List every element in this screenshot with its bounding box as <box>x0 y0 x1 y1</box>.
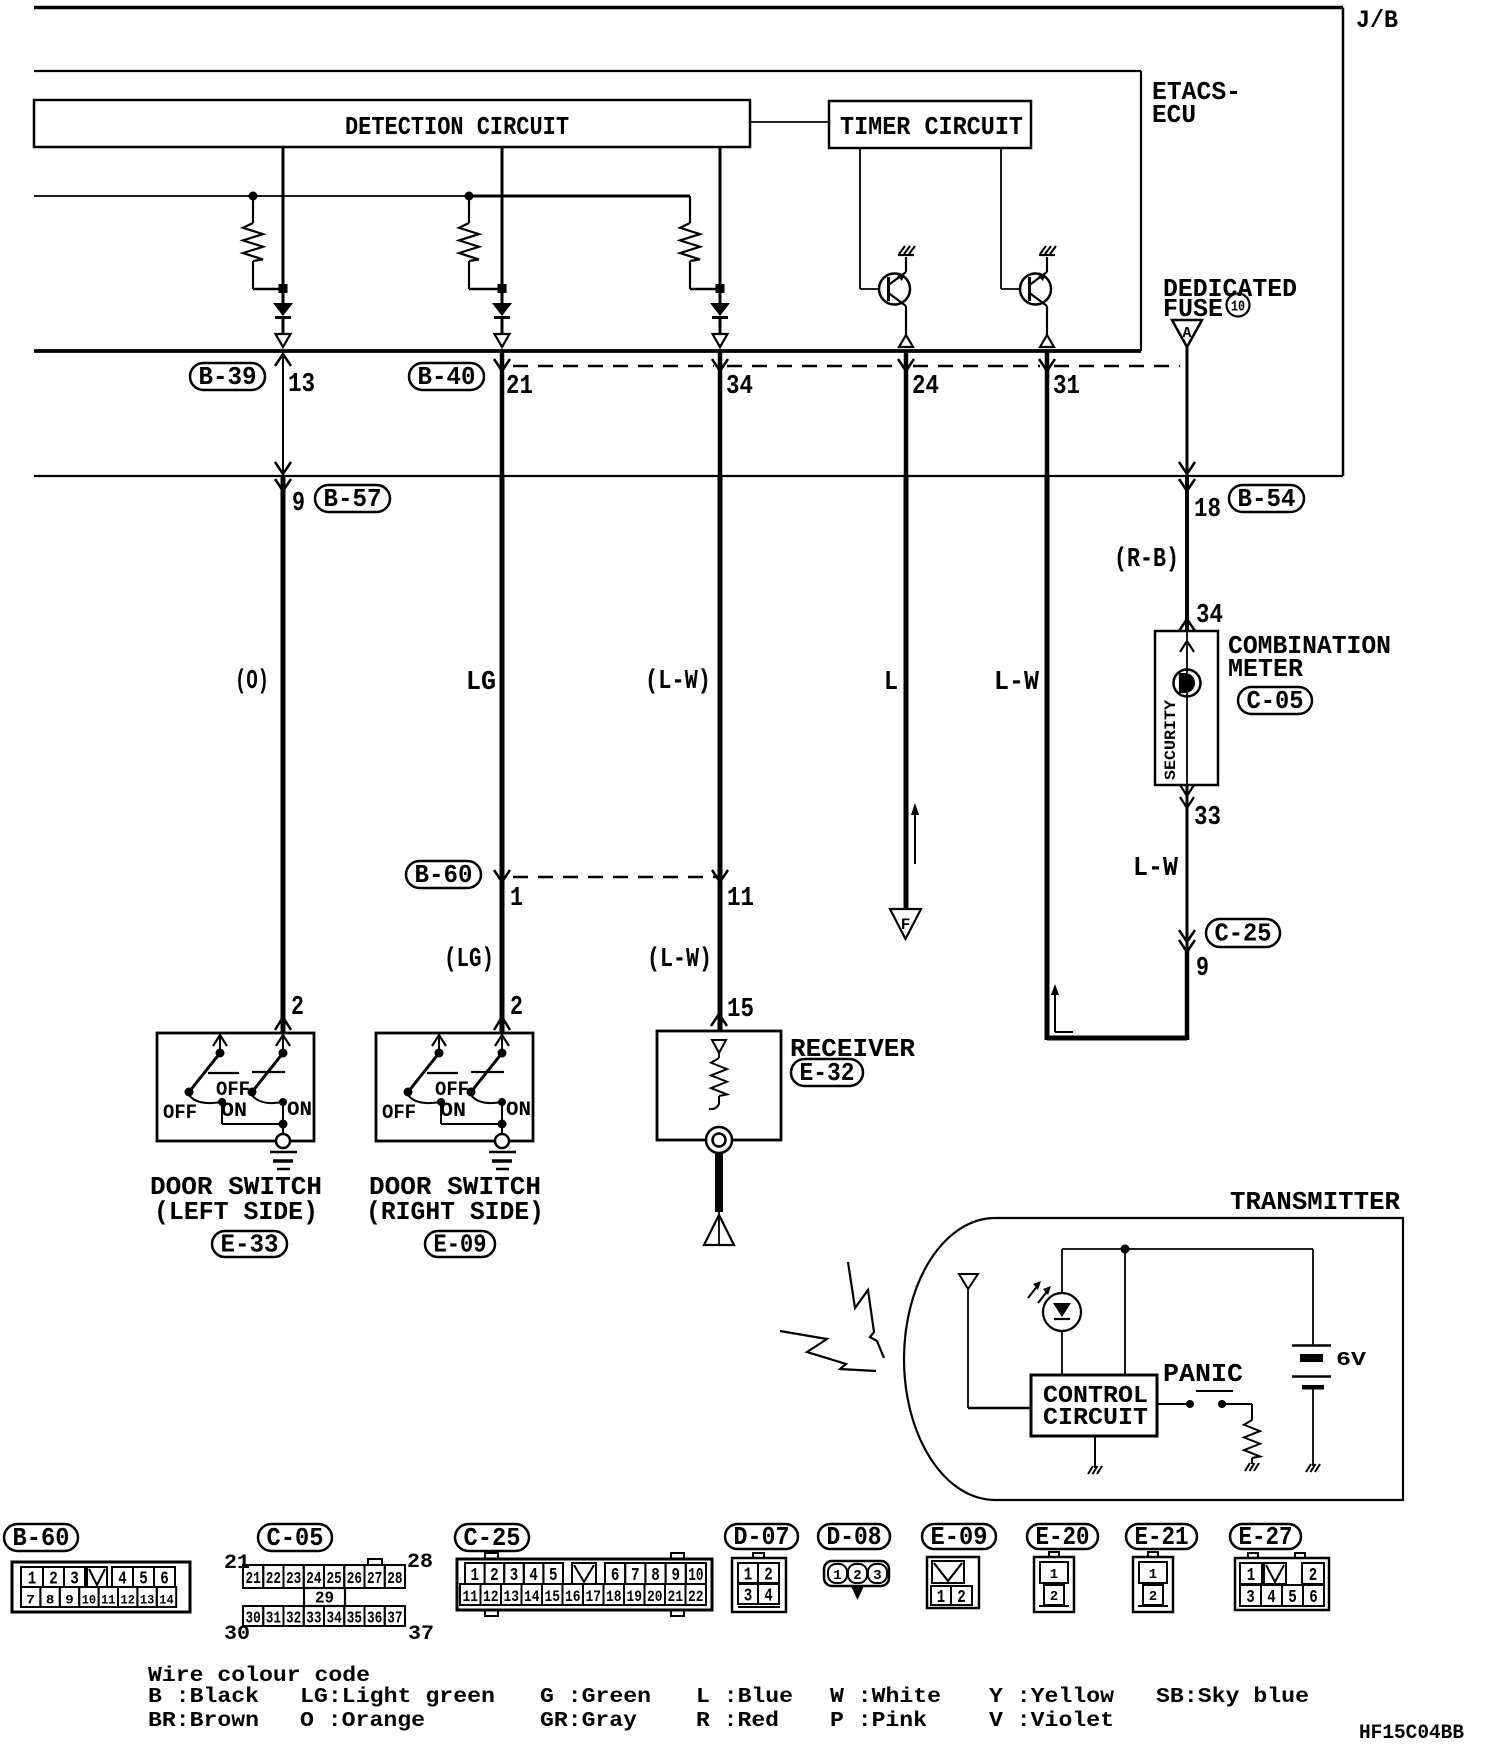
svg-text:C-25: C-25 <box>464 1523 521 1553</box>
svg-text:Wire colour code: Wire colour code <box>148 1665 370 1688</box>
svg-text:Y :Yellow: Y :Yellow <box>989 1686 1114 1709</box>
svg-text:14: 14 <box>159 1593 174 1608</box>
svg-text:ON: ON <box>440 1100 466 1123</box>
svg-text:(LEFT SIDE): (LEFT SIDE) <box>154 1197 318 1227</box>
svg-text:1: 1 <box>744 1566 753 1586</box>
svg-text:2: 2 <box>957 1588 966 1608</box>
svg-text:ECU: ECU <box>1152 100 1196 130</box>
svg-text:BR:Brown: BR:Brown <box>148 1710 259 1733</box>
svg-text:METER: METER <box>1228 654 1303 684</box>
svg-text:2: 2 <box>1309 1566 1318 1586</box>
svg-text:9: 9 <box>65 1593 74 1608</box>
svg-text:27: 27 <box>367 1570 382 1589</box>
svg-text:31: 31 <box>1053 372 1080 402</box>
svg-text:B-60: B-60 <box>415 860 473 890</box>
svg-text:22: 22 <box>266 1570 281 1589</box>
svg-text:20: 20 <box>647 1588 663 1606</box>
svg-text:GR:Gray: GR:Gray <box>540 1710 637 1733</box>
svg-text:DETECTION CIRCUIT: DETECTION CIRCUIT <box>345 112 569 142</box>
svg-text:E-21: E-21 <box>1135 1522 1189 1552</box>
svg-text:R :Red: R :Red <box>696 1710 779 1733</box>
svg-text:LG:Light green: LG:Light green <box>300 1686 495 1709</box>
svg-text:12: 12 <box>483 1588 499 1606</box>
svg-text:(O): (O) <box>235 667 269 697</box>
svg-text:24: 24 <box>306 1570 321 1589</box>
svg-text:E-09: E-09 <box>931 1522 988 1552</box>
svg-text:SECURITY: SECURITY <box>1162 700 1180 780</box>
svg-text:37: 37 <box>387 1610 402 1629</box>
svg-text:1: 1 <box>937 1588 946 1608</box>
svg-text:L :Blue: L :Blue <box>696 1686 793 1709</box>
svg-text:11: 11 <box>101 1593 116 1608</box>
svg-text:L-W: L-W <box>994 668 1040 698</box>
svg-text:4: 4 <box>1267 1588 1276 1608</box>
svg-text:B-39: B-39 <box>199 362 257 392</box>
svg-text:(L-W): (L-W) <box>647 945 712 975</box>
svg-text:17: 17 <box>586 1588 602 1606</box>
svg-text:33: 33 <box>306 1610 321 1629</box>
svg-text:7: 7 <box>26 1593 35 1608</box>
svg-text:5: 5 <box>1288 1588 1297 1608</box>
svg-text:TIMER CIRCUIT: TIMER CIRCUIT <box>840 112 1023 142</box>
svg-text:2: 2 <box>1050 1589 1058 1605</box>
svg-text:2: 2 <box>853 1568 861 1584</box>
svg-text:TRANSMITTER: TRANSMITTER <box>1230 1187 1400 1217</box>
svg-text:OFF: OFF <box>216 1079 250 1102</box>
svg-text:9: 9 <box>292 489 305 519</box>
svg-text:28: 28 <box>387 1570 402 1589</box>
svg-text:21: 21 <box>246 1570 261 1589</box>
svg-text:23: 23 <box>286 1570 301 1589</box>
svg-text:B-40: B-40 <box>418 362 476 392</box>
svg-text:4: 4 <box>764 1587 773 1607</box>
svg-text:C-05: C-05 <box>1247 686 1304 716</box>
svg-text:C-25: C-25 <box>1215 919 1272 949</box>
svg-text:LG: LG <box>466 668 496 698</box>
svg-text:3: 3 <box>1246 1588 1255 1608</box>
svg-text:13: 13 <box>504 1588 520 1606</box>
svg-text:OFF: OFF <box>382 1102 416 1125</box>
svg-text:B :Black: B :Black <box>148 1686 259 1709</box>
svg-text:O :Orange: O :Orange <box>300 1710 425 1733</box>
svg-text:E-20: E-20 <box>1036 1522 1090 1552</box>
svg-text:9: 9 <box>1196 954 1209 984</box>
svg-text:22: 22 <box>688 1588 704 1606</box>
svg-text:2: 2 <box>1149 1589 1157 1605</box>
svg-text:(L-W): (L-W) <box>645 667 711 697</box>
svg-text:E-27: E-27 <box>1239 1522 1293 1552</box>
svg-text:1: 1 <box>833 1568 841 1584</box>
svg-text:13: 13 <box>288 370 315 400</box>
svg-text:34: 34 <box>327 1610 342 1629</box>
svg-text:C-05: C-05 <box>267 1523 324 1553</box>
svg-text:32: 32 <box>286 1610 301 1629</box>
svg-text:8: 8 <box>46 1593 55 1608</box>
svg-text:33: 33 <box>1194 803 1221 833</box>
svg-text:37: 37 <box>408 1623 434 1646</box>
svg-text:D-08: D-08 <box>827 1522 882 1552</box>
svg-text:OFF: OFF <box>163 1102 197 1125</box>
svg-text:15: 15 <box>545 1588 561 1606</box>
svg-text:36: 36 <box>367 1610 382 1629</box>
svg-text:G :Green: G :Green <box>540 1686 651 1709</box>
svg-text:21: 21 <box>506 372 533 402</box>
svg-text:(R-B): (R-B) <box>1114 545 1179 575</box>
svg-text:18: 18 <box>606 1588 622 1606</box>
svg-text:(RIGHT SIDE): (RIGHT SIDE) <box>366 1197 544 1227</box>
svg-text:1: 1 <box>1149 1567 1157 1583</box>
svg-text:16: 16 <box>565 1588 581 1606</box>
svg-text:SB:Sky blue: SB:Sky blue <box>1156 1686 1309 1709</box>
svg-text:D-07: D-07 <box>734 1522 790 1552</box>
svg-text:B-57: B-57 <box>324 484 382 514</box>
svg-text:J/B: J/B <box>1356 6 1398 35</box>
svg-text:12: 12 <box>121 1593 136 1608</box>
svg-text:CIRCUIT: CIRCUIT <box>1043 1405 1148 1432</box>
svg-text:ON: ON <box>506 1099 531 1122</box>
svg-text:6V: 6V <box>1336 1349 1367 1371</box>
svg-text:ON: ON <box>287 1099 312 1122</box>
svg-text:(LG): (LG) <box>444 945 494 975</box>
svg-text:34: 34 <box>1196 601 1223 631</box>
svg-text:11: 11 <box>727 884 754 914</box>
svg-text:ON: ON <box>221 1100 247 1123</box>
svg-text:2: 2 <box>764 1566 773 1586</box>
svg-text:W :White: W :White <box>830 1686 941 1709</box>
svg-text:1: 1 <box>1247 1566 1256 1586</box>
svg-text:19: 19 <box>627 1588 643 1606</box>
svg-text:HF15C04BB: HF15C04BB <box>1359 1722 1464 1745</box>
svg-text:13: 13 <box>140 1593 155 1608</box>
svg-text:E-33: E-33 <box>221 1230 279 1260</box>
svg-text:P :Pink: P :Pink <box>830 1710 927 1733</box>
svg-text:6: 6 <box>1309 1588 1318 1608</box>
svg-text:21: 21 <box>668 1588 684 1606</box>
svg-text:31: 31 <box>266 1610 281 1629</box>
svg-text:2: 2 <box>291 993 304 1023</box>
svg-text:26: 26 <box>347 1570 362 1589</box>
svg-text:25: 25 <box>327 1570 342 1589</box>
svg-text:10: 10 <box>82 1593 97 1608</box>
svg-text:E-09: E-09 <box>434 1230 487 1260</box>
svg-text:PANIC: PANIC <box>1163 1359 1243 1389</box>
svg-text:14: 14 <box>524 1588 540 1606</box>
svg-text:34: 34 <box>726 372 753 402</box>
svg-text:OFF: OFF <box>435 1079 469 1102</box>
svg-text:E-32: E-32 <box>800 1058 855 1088</box>
svg-text:30: 30 <box>246 1610 261 1629</box>
svg-text:B-54: B-54 <box>1238 484 1296 514</box>
svg-text:B-60: B-60 <box>13 1523 70 1553</box>
svg-text:28: 28 <box>407 1551 433 1574</box>
svg-text:11: 11 <box>463 1588 479 1606</box>
svg-text:1: 1 <box>1050 1567 1058 1583</box>
svg-text:10: 10 <box>1231 299 1245 316</box>
svg-text:15: 15 <box>727 995 754 1025</box>
svg-text:V :Violet: V :Violet <box>989 1710 1114 1733</box>
svg-text:F: F <box>901 916 911 934</box>
svg-text:1: 1 <box>510 884 523 914</box>
svg-text:3: 3 <box>744 1587 753 1607</box>
svg-text:3: 3 <box>873 1568 881 1584</box>
svg-text:2: 2 <box>510 993 523 1023</box>
svg-text:24: 24 <box>912 372 939 402</box>
svg-text:L-W: L-W <box>1133 854 1179 884</box>
svg-text:35: 35 <box>347 1610 362 1629</box>
svg-text:L: L <box>884 668 898 698</box>
svg-text:18: 18 <box>1194 495 1221 525</box>
svg-text:A: A <box>1182 325 1191 342</box>
